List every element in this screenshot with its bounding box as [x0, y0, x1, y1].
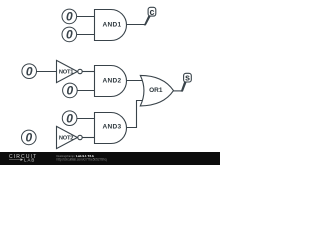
- wire NOT2 output to AND3 pin2: [82, 137, 95, 139]
- svg-text:0: 0: [67, 84, 74, 98]
- svg-text:0: 0: [26, 64, 33, 78]
- gate AND1: [95, 10, 127, 41]
- svg-text:AND1: AND1: [103, 21, 122, 28]
- wire A1 to AND1 pin1: [77, 16, 96, 18]
- wire AND2 output to OR1 pin1: [127, 80, 144, 82]
- svg-text:0: 0: [66, 10, 73, 24]
- wire B1 to NOT1 input: [36, 71, 57, 73]
- footer bar: [0, 152, 220, 165]
- svg-text:LAB: LAB: [24, 157, 35, 162]
- svg-text:0: 0: [66, 111, 73, 125]
- gate AND2: [95, 66, 127, 97]
- wire B2 to AND2 pin2: [77, 90, 95, 92]
- svg-text:AND3: AND3: [103, 124, 122, 131]
- wire AND1 output to flag c: [127, 24, 146, 26]
- svg-text:NOT1: NOT1: [59, 69, 73, 75]
- svg-text:NOT2: NOT2: [59, 135, 73, 141]
- canvas background: [0, 0, 220, 165]
- wire AND3 output to OR1 pin2: [127, 101, 145, 128]
- wire C1 to AND3 pin1: [77, 118, 96, 120]
- gate OR1: [140, 75, 173, 106]
- wire OR1 output to flag s: [174, 90, 182, 92]
- svg-text:0: 0: [66, 28, 73, 42]
- gate AND3: [95, 113, 127, 144]
- input switch C2 value 0: [22, 130, 37, 145]
- gate NOT2: [57, 126, 83, 148]
- wire NOT1 output to AND2 pin1: [82, 71, 95, 73]
- svg-text:s: s: [185, 72, 190, 82]
- gate NOT1: [57, 60, 83, 82]
- svg-text:0: 0: [25, 131, 32, 145]
- svg-text:http://circuitlab.com/c/77be5b: http://circuitlab.com/c/77be5b5278hq: [57, 158, 107, 162]
- output flag s: [181, 72, 192, 91]
- input switch A1 value 0: [62, 9, 77, 24]
- CircuitLab logo: [9, 154, 37, 163]
- input switch C1 value 0: [62, 111, 77, 126]
- input switch B2 value 0: [63, 83, 78, 98]
- svg-text:c: c: [149, 7, 154, 17]
- input switch A2 value 0: [62, 27, 77, 42]
- svg-text:OR1: OR1: [149, 87, 163, 94]
- wire A2 to AND1 pin2: [77, 34, 96, 36]
- output flag c: [144, 7, 156, 26]
- input switch B1 value 0: [22, 64, 37, 79]
- svg-text:AND2: AND2: [103, 78, 122, 85]
